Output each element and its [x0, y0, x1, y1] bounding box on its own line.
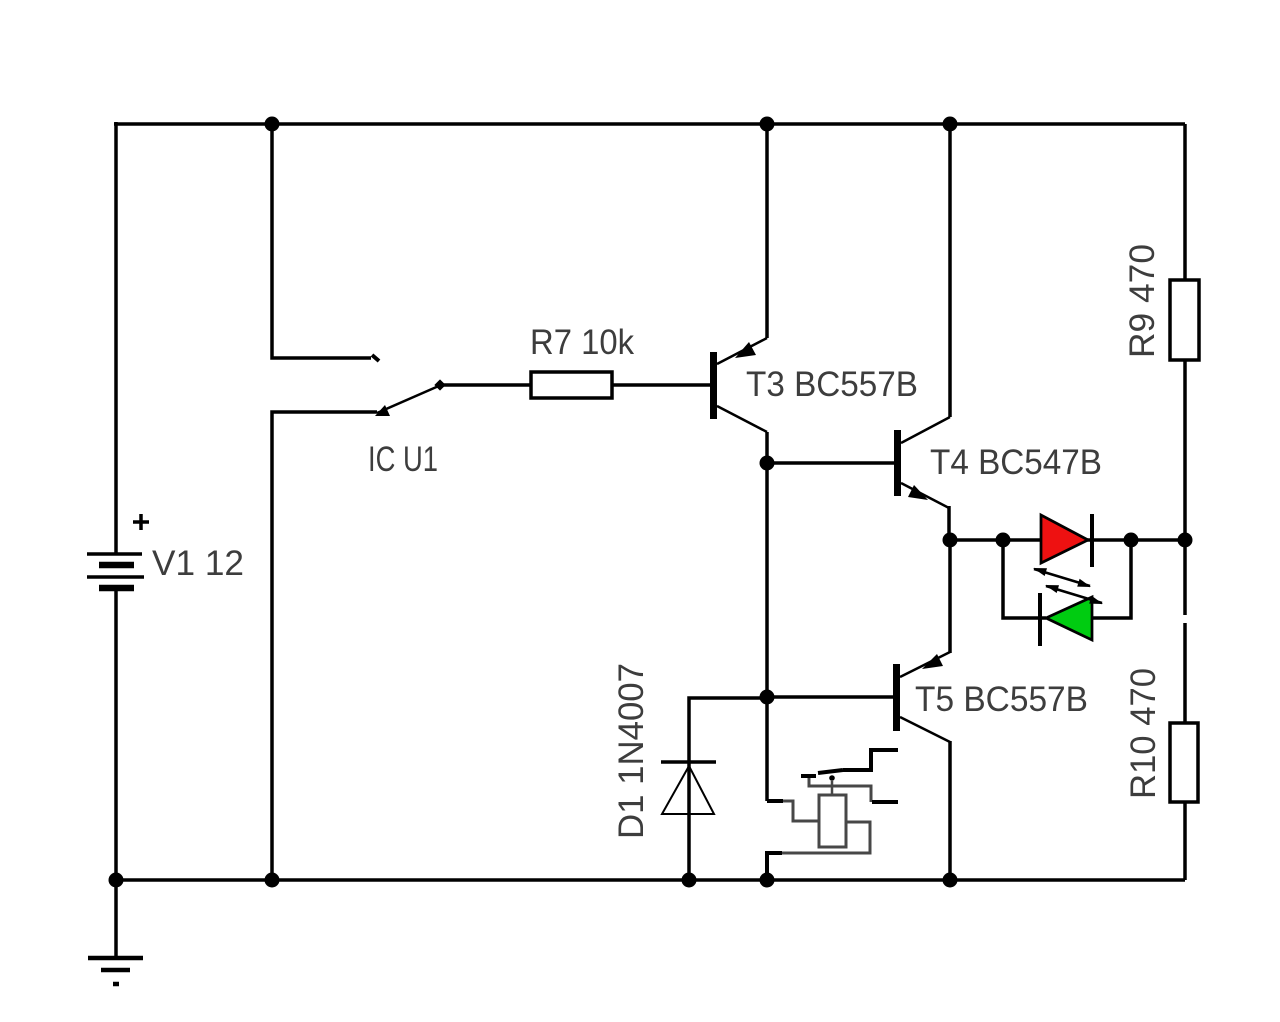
wire T5 base — [767, 695, 893, 699]
wire T3 emitter to node — [765, 432, 769, 463]
wire node to T4 base — [767, 461, 894, 465]
svg-text:T5 BC557B: T5 BC557B — [915, 680, 1088, 719]
resistor R7 — [531, 372, 612, 398]
junction top rail / T3 emitter — [760, 117, 775, 132]
wire T4 emitter vertical — [947, 506, 951, 540]
wire right rail lower — [1183, 801, 1187, 880]
wire switch upper feed — [272, 124, 371, 358]
wire R7 lead right — [612, 383, 710, 387]
resistor R9 — [1170, 280, 1199, 360]
junction T5 base / D1 — [760, 690, 775, 705]
transistor Q T5 — [893, 652, 950, 742]
wire T5 emitter vertical — [948, 540, 952, 653]
wire right rail mid — [1183, 359, 1187, 615]
transistor Q T3 — [710, 338, 767, 432]
svg-text:T4 BC547B: T4 BC547B — [930, 443, 1102, 482]
relay K1 contact blade — [818, 770, 843, 773]
svg-text:R10 470: R10 470 — [1124, 668, 1163, 799]
wire D1 top elbow — [689, 698, 766, 880]
relay K1 NO contact lead — [872, 748, 898, 752]
svg-text:V1 12: V1 12 — [152, 544, 244, 583]
relay K1 blade pivot — [829, 775, 835, 781]
wire right rail upper — [1183, 124, 1187, 281]
wire T4 collector vertical — [948, 124, 952, 417]
relay K1 NO contact step — [843, 748, 871, 770]
LED green D3 — [1040, 593, 1092, 646]
junction bottom rail / D1 — [682, 873, 697, 888]
switch IC U1 — [372, 355, 446, 416]
wire LED left branch — [1003, 540, 1046, 618]
wire LED rail — [950, 538, 1185, 542]
wire LED right branch — [1092, 540, 1131, 618]
junction LED rail / right rail — [1178, 533, 1193, 548]
relay K1 coil right lead — [782, 822, 870, 853]
relay K1 coil left lead — [782, 801, 819, 821]
ground — [88, 880, 143, 984]
relay K1 armature link — [809, 777, 871, 802]
junction top rail / switch feed — [265, 117, 280, 132]
junction bottom rail / relay coil — [760, 873, 775, 888]
junction bottom rail / ground — [109, 873, 124, 888]
wire T3 collector vertical — [765, 122, 769, 338]
junction bottom rail / T5 collector — [943, 873, 958, 888]
relay K1 common contact bar — [801, 774, 816, 778]
relay K1 coil box — [819, 795, 846, 847]
wire bottom rail — [114, 878, 1185, 882]
resistor R10 — [1170, 723, 1198, 802]
wire T5 collector vertical — [948, 741, 952, 880]
wire R7 lead left — [441, 383, 531, 387]
svg-text:D1 1N4007: D1 1N4007 — [612, 663, 651, 839]
wire node down to T5 base node — [765, 463, 769, 801]
wire left rail lower — [114, 590, 118, 880]
wire relay coil terminal 2 — [767, 851, 782, 855]
wire relay coil terminal 1 — [767, 799, 783, 803]
svg-text:R7 10k: R7 10k — [530, 323, 634, 362]
junction bottom rail / switch lower feed — [265, 873, 280, 888]
wire relay coil terminal 2 drop — [765, 851, 769, 880]
relay K1 coil top lead — [831, 781, 834, 795]
junction top rail / T4 collector — [943, 117, 958, 132]
svg-text:IC U1: IC U1 — [368, 440, 438, 479]
relay K1 NC contact lead — [872, 800, 898, 804]
junction T3 collector / T4 base — [760, 456, 775, 471]
svg-text:R9 470: R9 470 — [1123, 244, 1162, 358]
wire top rail — [114, 122, 1185, 126]
junction LED rail / green branch left — [996, 533, 1011, 548]
LED red D2 — [1041, 514, 1092, 567]
wire switch lower feed — [272, 412, 377, 880]
battery V1 — [87, 514, 149, 588]
junction LED rail / green branch right — [1124, 533, 1139, 548]
wire right rail mid2 — [1183, 623, 1187, 724]
svg-text:T3 BC557B: T3 BC557B — [746, 365, 918, 404]
LED arrows — [1033, 568, 1103, 604]
junction LED rail / T4-T5 emitters — [943, 533, 958, 548]
wire left rail upper — [114, 122, 118, 554]
transistor Q T4 — [894, 417, 950, 508]
diode D1 — [661, 762, 716, 814]
